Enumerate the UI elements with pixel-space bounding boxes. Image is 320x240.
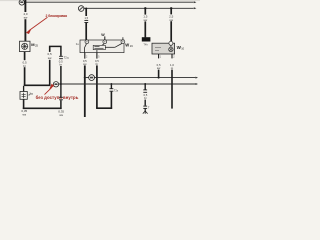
bus line 30 (25, 1, 194, 3)
wire box2 bottom loop (23, 99, 25, 109)
light pin 2 (171, 54, 173, 58)
stub wire at 145 (143, 83, 150, 114)
node terminal 15 (circle B) (78, 6, 84, 12)
terminal circles (85, 40, 89, 44)
wire T2q leg lower (60, 66, 62, 84)
internal contacts (85, 44, 122, 53)
connector T2q (59, 56, 63, 58)
svg-text:T2s: T2s (114, 88, 119, 92)
svg-text:T4h: T4h (143, 43, 148, 47)
junction (60, 83, 62, 85)
svg-text:без доступа внутрь: без доступа внутрь (36, 95, 79, 100)
ground point circle 2 (89, 75, 95, 81)
wire relay pin1 to bottom (84, 65, 86, 117)
end fork (143, 111, 148, 114)
svg-text:br: br (144, 96, 147, 100)
relay pin 1 stub (84, 53, 86, 59)
node terminal 30 (circle A) (19, 0, 24, 5)
stub to terminal 2 (104, 36, 106, 40)
lamp M25 box (20, 41, 31, 51)
stub into box2 (23, 86, 25, 92)
ground line a (85, 77, 196, 79)
relay pin 2 stub (96, 53, 98, 59)
wire relay pin2 down (96, 65, 98, 108)
connector block (multi-pin) (142, 37, 151, 41)
wire horizontal to up-leg (24, 84, 51, 86)
actuator box 2 (20, 92, 27, 100)
wire up-leg upper (49, 47, 51, 52)
svg-text:ws: ws (59, 113, 63, 117)
light pin 1 (158, 54, 160, 58)
relay box U1 (80, 40, 125, 53)
wire light pin2 down (171, 70, 173, 109)
red annotation 2 arrow (45, 84, 54, 94)
interior light W10 box (152, 41, 175, 54)
stub to ground line (110, 84, 112, 89)
bus line 15 (83, 7, 193, 9)
wire V3 to interior light (169, 7, 174, 41)
stub to terminal 3 (122, 37, 124, 40)
ground line b (59, 83, 196, 85)
bus line 15 end mark (194, 7, 197, 9)
svg-text:W: W (125, 42, 129, 47)
bus line 30 end mark (194, 1, 197, 3)
ground point circle 1 (53, 82, 58, 87)
svg-text:ro: ro (171, 66, 174, 70)
svg-text:2 блокировка: 2 блокировка (46, 14, 68, 18)
wire light pin1 to ground line (158, 70, 160, 78)
wire bridge top (49, 45, 62, 47)
svg-text:W: W (101, 33, 105, 37)
wire U bottom (96, 107, 112, 109)
wire V5 from lamp down (23, 52, 28, 86)
wire up-leg (49, 60, 51, 86)
wire U right leg (110, 92, 112, 109)
wire V2 to relay (84, 8, 88, 41)
wire V4 to connector block (143, 7, 148, 37)
red annotation 1 arrow (27, 17, 48, 33)
wire V1 lower (24, 19, 26, 41)
wire battery feed (V1 upper) (24, 0, 26, 12)
stub below junction (60, 84, 62, 97)
connector pair on loop (59, 97, 63, 100)
svg-text:1,5: 1,5 (84, 16, 88, 20)
svg-text:ws: ws (22, 112, 26, 116)
svg-text:T2q: T2q (64, 55, 69, 59)
connector on U leg (110, 89, 114, 92)
wire T2q leg upper (60, 46, 62, 56)
